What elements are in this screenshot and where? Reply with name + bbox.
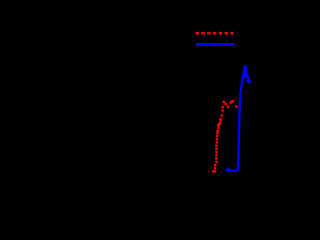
blue solid curve with spike peak	[226, 65, 250, 171]
red curve peak markers	[221, 101, 236, 119]
legend red dashed line	[196, 32, 234, 35]
blue spike right tail thickening	[247, 80, 250, 83]
red dashed curve flat start faint dot	[208, 171, 209, 173]
blue spike interior fill	[243, 65, 248, 79]
red dashed curve flat dash	[212, 170, 216, 172]
legend blue solid line	[196, 43, 235, 46]
red curve rise markers	[215, 120, 220, 169]
